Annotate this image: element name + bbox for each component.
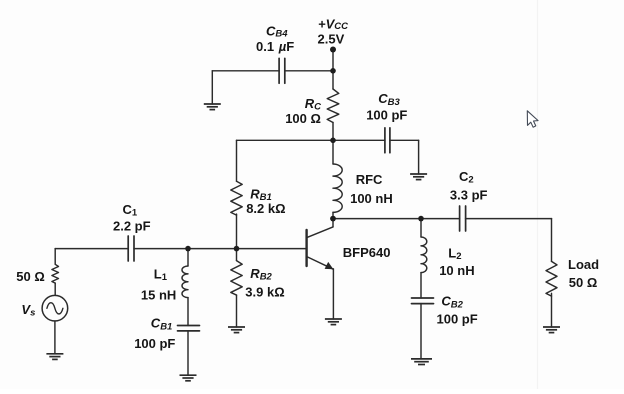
- svg-text:2.5V: 2.5V: [318, 32, 345, 47]
- svg-text:Load: Load: [568, 257, 599, 272]
- svg-text:+VCC: +VCC: [318, 17, 348, 33]
- svg-text:8.2 kΩ: 8.2 kΩ: [246, 201, 285, 216]
- svg-text:100 pF: 100 pF: [134, 336, 175, 351]
- svg-text:CB3: CB3: [378, 91, 400, 108]
- svg-text:RC: RC: [305, 96, 321, 113]
- svg-text:3.9 kΩ: 3.9 kΩ: [245, 284, 284, 299]
- svg-text:L1: L1: [154, 267, 168, 283]
- svg-text:RB2: RB2: [250, 266, 272, 283]
- svg-text:C1: C1: [123, 202, 138, 218]
- svg-text:Vs: Vs: [21, 302, 35, 319]
- svg-text:100 nH: 100 nH: [350, 191, 393, 206]
- svg-text:CB2: CB2: [441, 293, 463, 310]
- svg-text:100 pF: 100 pF: [437, 311, 478, 326]
- svg-text:10 nH: 10 nH: [439, 263, 474, 278]
- svg-text:CB4: CB4: [266, 24, 288, 40]
- svg-text:0.1 µF: 0.1 µF: [256, 39, 294, 54]
- svg-text:15 nH: 15 nH: [141, 288, 176, 303]
- svg-text:50 Ω: 50 Ω: [16, 269, 45, 284]
- svg-text:50 Ω: 50 Ω: [569, 275, 598, 290]
- svg-text:CB1: CB1: [151, 316, 173, 333]
- svg-text:100 pF: 100 pF: [366, 108, 407, 123]
- svg-text:100 Ω: 100 Ω: [285, 111, 321, 126]
- svg-text:BFP640: BFP640: [343, 245, 391, 260]
- svg-text:C2: C2: [459, 169, 474, 185]
- svg-text:RFC: RFC: [356, 172, 383, 187]
- svg-text:2.2 pF: 2.2 pF: [113, 219, 151, 234]
- svg-text:3.3 pF: 3.3 pF: [450, 188, 488, 203]
- svg-text:L2: L2: [448, 245, 461, 261]
